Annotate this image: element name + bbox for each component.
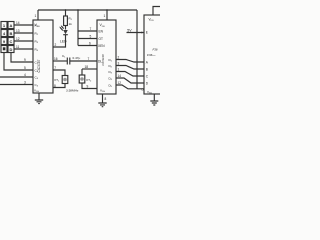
svg-text:R3: R3 bbox=[35, 39, 39, 44]
svg-text:9: 9 bbox=[3, 39, 6, 44]
wire row2 pin 13 bbox=[14, 29, 33, 33]
keypad key S3 bbox=[1, 30, 7, 37]
wire keypad column 1 to pin 5 bbox=[4, 53, 33, 71]
U3 pin label D bottom bbox=[142, 88, 145, 92]
U2 pin label EN bbox=[99, 30, 104, 34]
svg-text:9: 9 bbox=[24, 58, 26, 62]
U3 pin label A bbox=[146, 61, 149, 65]
svg-text:7: 7 bbox=[88, 57, 90, 61]
wire U1 pin7 to XT1 bbox=[53, 66, 65, 76]
keypad key S8 bbox=[8, 46, 14, 53]
svg-text:VDD: VDD bbox=[100, 23, 106, 28]
U2 pin label D1 bbox=[109, 58, 113, 63]
svg-text:D: D bbox=[146, 82, 149, 86]
wire XT2 bottom to U2 pin9 bbox=[82, 83, 97, 89]
svg-text:12: 12 bbox=[118, 81, 122, 85]
wire 5V feed bbox=[127, 10, 137, 89]
junction node at EN feed bbox=[77, 9, 79, 11]
wire D5 pin 12 bbox=[116, 81, 144, 89]
keypad key S5 bbox=[1, 38, 7, 45]
crystal XT1 3.58MHz bbox=[54, 76, 68, 84]
svg-text:4: 4 bbox=[3, 31, 6, 36]
svg-text:C4: C4 bbox=[35, 83, 39, 88]
svg-text:12: 12 bbox=[16, 37, 20, 41]
svg-text:C: C bbox=[146, 75, 149, 79]
svg-text:R1: R1 bbox=[69, 17, 73, 22]
svg-text:3.58MHz: 3.58MHz bbox=[66, 88, 79, 92]
svg-text:1: 1 bbox=[35, 14, 37, 18]
value label 3.58MHz bbox=[66, 88, 79, 92]
svg-text:E: E bbox=[146, 31, 148, 35]
U2 pin label D5 bbox=[109, 83, 113, 88]
svg-text:F36: F36 bbox=[153, 48, 158, 52]
svg-text:14: 14 bbox=[16, 21, 20, 25]
keypad key S7 bbox=[1, 46, 7, 53]
svg-text:D: D bbox=[10, 47, 13, 52]
U1 pin label R1 bbox=[35, 23, 39, 28]
svg-text:A: A bbox=[146, 61, 149, 65]
wire pin 4 off-page bbox=[0, 73, 33, 77]
U1 pin label C4 bbox=[35, 83, 39, 88]
svg-text:8: 8 bbox=[54, 84, 56, 88]
wire pin 3 off-page bbox=[0, 81, 33, 85]
LED D1 bbox=[59, 26, 67, 44]
U1 pin label R2 bbox=[35, 31, 39, 36]
resistor R1 bbox=[64, 10, 73, 30]
svg-text:1: 1 bbox=[104, 14, 106, 18]
svg-text:5V: 5V bbox=[127, 28, 132, 32]
svg-text:2: 2 bbox=[55, 43, 57, 47]
U1 part number CIC3187 vertical bbox=[37, 59, 41, 72]
svg-text:4: 4 bbox=[24, 73, 26, 77]
annotation F36 bbox=[147, 48, 158, 57]
power rail VDD bbox=[38, 9, 137, 11]
U1 pin label R3 bbox=[35, 39, 39, 44]
svg-text:D5: D5 bbox=[109, 83, 113, 88]
svg-text:11: 11 bbox=[16, 45, 20, 49]
svg-text:9: 9 bbox=[87, 85, 89, 89]
svg-text:EN: EN bbox=[99, 30, 104, 34]
U2 label VSS bbox=[100, 89, 106, 94]
svg-text:1: 1 bbox=[3, 23, 6, 28]
U1 pin label C2 bbox=[35, 68, 39, 73]
svg-text:VSS: VSS bbox=[100, 89, 106, 94]
svg-text:5: 5 bbox=[90, 35, 92, 39]
svg-text:R4: R4 bbox=[35, 47, 39, 52]
wire row4 pin 11 bbox=[14, 45, 33, 49]
U1 label VSS bbox=[34, 89, 40, 94]
svg-text:R2: R2 bbox=[35, 31, 39, 36]
svg-text:3: 3 bbox=[24, 81, 26, 85]
IC U2 bbox=[97, 20, 116, 94]
svg-text:3: 3 bbox=[118, 62, 120, 66]
svg-text:C: C bbox=[10, 39, 13, 44]
svg-text:D4: D4 bbox=[109, 77, 113, 82]
svg-text:8: 8 bbox=[105, 97, 107, 101]
junction node at U2 pin1 bbox=[106, 9, 108, 11]
U2 pin label OT bbox=[99, 37, 103, 41]
wire U1 pin1 to VDD rail bbox=[35, 10, 39, 20]
U3 pin label B bbox=[146, 68, 148, 72]
U1 pin label R4 bbox=[35, 47, 39, 52]
U2 pin label D4 bbox=[109, 77, 113, 82]
capacitor C1 0.47u bbox=[62, 54, 81, 65]
connector U3 F36 bbox=[144, 15, 162, 94]
U2 pin label D2 bbox=[109, 64, 113, 69]
U2 pin label XEN bbox=[98, 44, 105, 48]
wire D1 to connector A pin 2 bbox=[116, 56, 144, 63]
crystal XT2 bbox=[79, 69, 92, 83]
svg-text:2: 2 bbox=[118, 56, 120, 60]
svg-text:LED: LED bbox=[60, 40, 67, 44]
wire EN OT XEN feed from rail bbox=[78, 10, 97, 46]
U2 pin label D3 bbox=[109, 70, 113, 75]
U1 pin label C3 bbox=[35, 75, 39, 80]
U2 part number vertical bbox=[101, 54, 105, 66]
svg-text:XEN: XEN bbox=[98, 44, 105, 48]
wire C1 to U2 pin7 DL bbox=[70, 57, 97, 61]
wire XT1 to U1 pin8 bbox=[53, 84, 65, 89]
svg-text:A: A bbox=[10, 23, 13, 28]
wire row1 pin 14 bbox=[14, 21, 33, 25]
svg-text:7: 7 bbox=[90, 27, 92, 31]
svg-text:7: 7 bbox=[54, 66, 56, 70]
svg-text:CIC3187: CIC3187 bbox=[37, 59, 41, 72]
wire U3 VDD to top edge bbox=[153, 7, 161, 16]
svg-text:B: B bbox=[146, 68, 148, 72]
svg-text:OT: OT bbox=[99, 37, 103, 41]
svg-text:0.47μ: 0.47μ bbox=[73, 56, 81, 60]
U3 ground bbox=[150, 94, 158, 105]
IC U1 CIC3187 bbox=[33, 20, 53, 93]
U2 pin label DL bbox=[98, 60, 102, 64]
wire keypad column 2 to pin 9 bbox=[11, 53, 33, 63]
U3 pin label D bbox=[146, 82, 149, 86]
wire D4 to connector D pin 14 bbox=[116, 74, 144, 83]
svg-text:1: 1 bbox=[118, 68, 120, 72]
svg-text:C1: C1 bbox=[62, 54, 66, 59]
wire D3 to connector C pin 1 bbox=[116, 68, 144, 77]
svg-text:D1: D1 bbox=[109, 58, 113, 63]
U3 pin label E bbox=[146, 31, 148, 35]
svg-text:13: 13 bbox=[16, 29, 20, 33]
svg-text:18: 18 bbox=[85, 65, 89, 69]
keypad key S2 bbox=[8, 22, 14, 29]
svg-text:XT1: XT1 bbox=[54, 78, 60, 83]
wire LED to U1 pin2 bbox=[53, 35, 66, 47]
svg-text:1k: 1k bbox=[69, 22, 73, 26]
svg-text:VDD: VDD bbox=[149, 18, 155, 23]
keypad key S1 bbox=[1, 22, 7, 29]
svg-text:XT2: XT2 bbox=[86, 78, 92, 83]
svg-text:VSS: VSS bbox=[147, 90, 152, 95]
U2 ground pin 8 bbox=[98, 94, 106, 107]
svg-text:16: 16 bbox=[54, 57, 58, 61]
wire XT2 top to U2 pin18 bbox=[82, 65, 97, 69]
U1 pin label C1 bbox=[35, 60, 39, 65]
svg-text:VSS: VSS bbox=[34, 89, 40, 94]
svg-text:C3: C3 bbox=[35, 75, 39, 80]
svg-text:F36—: F36— bbox=[147, 53, 156, 57]
keypad key S4 bbox=[8, 30, 14, 37]
svg-text:5: 5 bbox=[24, 66, 26, 70]
U1 ground bbox=[35, 93, 43, 104]
svg-text:14: 14 bbox=[118, 74, 122, 78]
wire row3 pin 12 bbox=[14, 37, 33, 41]
keypad key S6 bbox=[8, 38, 14, 45]
svg-text:6: 6 bbox=[89, 42, 91, 46]
U3 label VSS bbox=[147, 90, 152, 95]
wire U2 pin1 to rail bbox=[104, 10, 108, 20]
wire U1 pin16 to C1 bbox=[53, 57, 67, 61]
wire D2 to connector B pin 3 bbox=[116, 62, 144, 70]
svg-text:D2: D2 bbox=[109, 64, 113, 69]
junction node at R1 top bbox=[65, 9, 67, 11]
svg-text:CIC9118: CIC9118 bbox=[101, 54, 105, 66]
U3 pin label C bbox=[146, 75, 149, 79]
wire E branch with arrow bbox=[127, 32, 144, 34]
svg-text:B: B bbox=[10, 31, 13, 36]
svg-text:D3: D3 bbox=[109, 70, 113, 75]
